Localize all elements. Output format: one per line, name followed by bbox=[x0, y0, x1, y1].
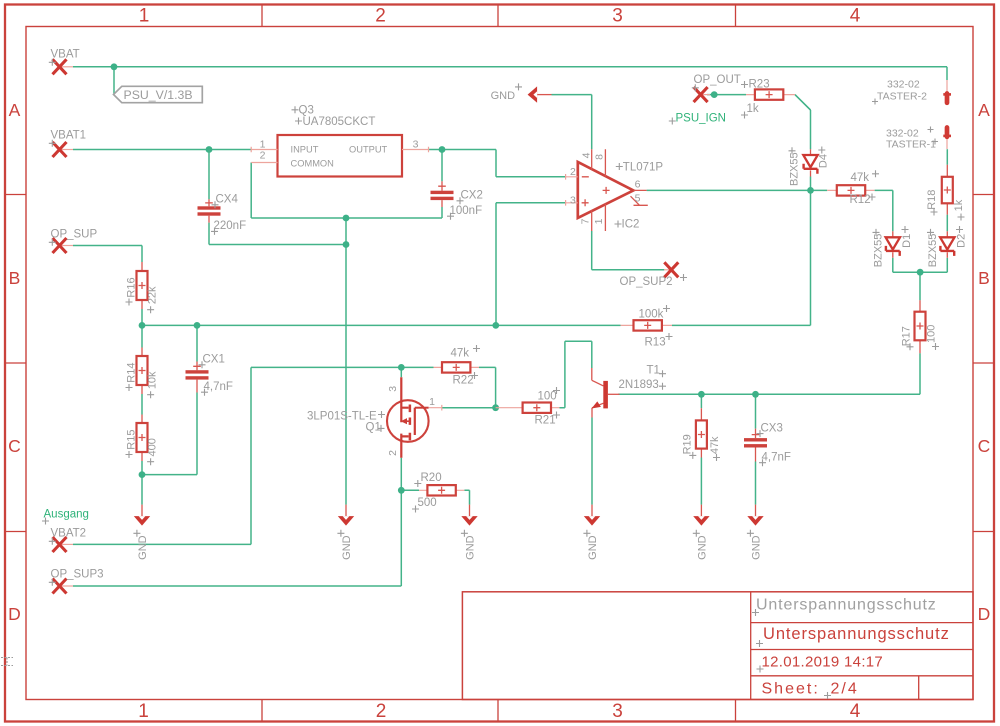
resistor R15 400 bbox=[126, 415, 159, 466]
svg-text:Unterspannungsschutz: Unterspannungsschutz bbox=[756, 597, 937, 614]
wire VBAT2 run bbox=[73, 367, 401, 544]
svg-text:Q3: Q3 bbox=[299, 105, 314, 117]
op-amp IC2 TL071P bbox=[566, 149, 664, 231]
node OP_OUT x-flag bbox=[692, 74, 741, 102]
svg-text:GND: GND bbox=[341, 535, 353, 560]
svg-text:12.01.2019 14:17: 12.01.2019 14:17 bbox=[762, 654, 884, 671]
svg-text:1: 1 bbox=[139, 6, 150, 27]
svg-text:3: 3 bbox=[570, 194, 576, 206]
wire R23 to D4 diagonal bbox=[795, 95, 811, 110]
svg-text:4: 4 bbox=[580, 152, 592, 158]
svg-text:UA7805CKCT: UA7805CKCT bbox=[303, 116, 376, 128]
svg-text:47k: 47k bbox=[851, 172, 870, 184]
svg-text:R23: R23 bbox=[749, 78, 770, 90]
resistor R13 100k bbox=[621, 305, 673, 349]
svg-text:Q1: Q1 bbox=[366, 422, 381, 434]
capacitor CX1 4,7nF bbox=[186, 354, 233, 396]
junction common A bbox=[343, 215, 350, 222]
svg-text:4: 4 bbox=[850, 701, 861, 722]
resistor R17 100 bbox=[901, 300, 940, 353]
wire VBAT to switch chain bbox=[946, 67, 948, 80]
svg-text:R16: R16 bbox=[126, 277, 138, 297]
resistor R16 22k bbox=[126, 262, 159, 313]
svg-text:R14: R14 bbox=[126, 363, 138, 383]
svg-text:1: 1 bbox=[138, 701, 149, 722]
svg-text:VBAT2: VBAT2 bbox=[51, 528, 87, 540]
svg-text:8: 8 bbox=[594, 154, 606, 160]
wire D4 column vertical upper bbox=[795, 95, 811, 150]
node OP_SUP2 x-flag bbox=[620, 262, 688, 288]
frame column dividers top bbox=[262, 5, 736, 27]
svg-text:GND: GND bbox=[696, 535, 708, 560]
node OP_SUP3 x-flag bbox=[49, 569, 104, 594]
svg-text:220nF: 220nF bbox=[214, 220, 247, 232]
wire R18 top bbox=[946, 149, 948, 165]
frame row dividers left bbox=[5, 195, 26, 532]
junction base CX3 bbox=[752, 391, 759, 398]
wire CX2 top bbox=[441, 150, 443, 182]
wire CX3 bottom bbox=[755, 462, 757, 505]
junction base R19 bbox=[698, 391, 705, 398]
svg-text:TASTER-1: TASTER-1 bbox=[886, 139, 936, 151]
svg-text:C: C bbox=[8, 436, 21, 456]
svg-text:CX4: CX4 bbox=[216, 194, 239, 206]
svg-text:2: 2 bbox=[260, 149, 266, 161]
svg-text:6: 6 bbox=[635, 179, 641, 191]
svg-text:400: 400 bbox=[146, 438, 158, 456]
junction VBAT1 CX4 bbox=[206, 146, 213, 153]
zener diode D4 BZX55 bbox=[789, 147, 830, 187]
svg-text:CX1: CX1 bbox=[203, 354, 225, 366]
wire divider bottom to gnd bbox=[141, 475, 143, 505]
frame row dividers right bbox=[973, 195, 994, 532]
resistor R12 47k bbox=[827, 170, 879, 206]
wire opamp output bbox=[647, 189, 828, 191]
wire OP_SUP3 run bbox=[73, 490, 401, 586]
svg-text:332-02: 332-02 bbox=[887, 79, 920, 91]
wire Q1 gate node bbox=[400, 367, 402, 377]
junction VBAT flag bbox=[111, 63, 118, 70]
svg-text:R13: R13 bbox=[645, 337, 666, 349]
wire D4 column vertical lower bbox=[810, 177, 812, 326]
svg-text:R20: R20 bbox=[421, 472, 442, 484]
wire VBAT1 to 7805 bbox=[73, 149, 251, 151]
svg-text:R15: R15 bbox=[126, 430, 138, 450]
svg-text:IC2: IC2 bbox=[622, 219, 640, 231]
wire gate node to R22 bbox=[401, 366, 433, 368]
transistor Q1 3LP01S-TL-E (P-MOSFET) bbox=[307, 377, 442, 458]
svg-text:D2: D2 bbox=[956, 234, 968, 248]
svg-text:2: 2 bbox=[387, 450, 399, 456]
svg-text:GND: GND bbox=[751, 535, 763, 560]
svg-text:2N1893: 2N1893 bbox=[619, 379, 659, 391]
resistor R14 10k bbox=[126, 348, 159, 399]
junction OP_OUT bbox=[711, 91, 718, 98]
wire R22 right down bbox=[479, 367, 496, 407]
zener diode D1 BZX55 bbox=[872, 226, 913, 267]
svg-text:C: C bbox=[978, 436, 991, 456]
svg-text:TASTER-2: TASTER-2 bbox=[877, 91, 927, 103]
capacitor CX3 4,7nF bbox=[744, 422, 791, 466]
svg-text:1: 1 bbox=[429, 396, 435, 408]
junction 7805 out bbox=[439, 146, 446, 153]
wire COMMON horizontal bbox=[251, 217, 442, 219]
wire T1 emitter to gnd bbox=[591, 418, 593, 505]
svg-text:CX3: CX3 bbox=[761, 422, 783, 434]
junction Q1 pin1 bbox=[492, 404, 499, 411]
svg-text:OP_OUT: OP_OUT bbox=[694, 74, 741, 86]
wire R19 top bbox=[700, 394, 702, 408]
svg-text:R17: R17 bbox=[901, 326, 913, 346]
wire CX4 bottom bbox=[209, 223, 346, 245]
svg-text:47k: 47k bbox=[451, 347, 470, 359]
junction Q1 pin2 R20 bbox=[398, 487, 405, 494]
frame column dividers bottom bbox=[262, 700, 736, 722]
wire R17 bottom leg bbox=[919, 353, 921, 394]
wire R13 right to D4 column bbox=[672, 324, 811, 326]
svg-text:2/4: 2/4 bbox=[831, 681, 859, 698]
svg-text:2: 2 bbox=[570, 166, 576, 178]
svg-text:D: D bbox=[8, 604, 21, 624]
svg-text:OP_SUP2: OP_SUP2 bbox=[620, 276, 673, 288]
svg-text:VBAT: VBAT bbox=[51, 49, 80, 61]
svg-text:10k: 10k bbox=[146, 371, 158, 389]
wire CX1 top bbox=[196, 325, 198, 361]
title block vertical divider bbox=[750, 592, 752, 700]
junction CX1 top bbox=[194, 322, 201, 329]
svg-text:2: 2 bbox=[376, 701, 387, 722]
ground symbol below CX3 bbox=[747, 505, 764, 560]
svg-text:PSU_V/1.3B: PSU_V/1.3B bbox=[124, 88, 193, 102]
wire 7805 output node bbox=[429, 150, 566, 177]
resistor R18 1k bbox=[926, 165, 965, 221]
title block outline bbox=[462, 592, 973, 700]
wire D1 column bbox=[892, 190, 894, 272]
ground symbol below T1 emitter bbox=[583, 505, 600, 560]
svg-text:PSU_IGN: PSU_IGN bbox=[676, 113, 727, 125]
wire R21 to T1 collector bbox=[560, 341, 592, 408]
svg-text:5: 5 bbox=[635, 192, 641, 204]
wire T1 base line bbox=[618, 393, 920, 395]
node OP_SUP x-flag bbox=[49, 229, 98, 254]
svg-text:TL071P: TL071P bbox=[623, 161, 664, 173]
title block row lines bbox=[751, 623, 973, 700]
svg-text:3: 3 bbox=[612, 701, 623, 722]
wire Q1 pin1 to R21 node bbox=[442, 407, 496, 409]
junction Q1 gate bbox=[398, 364, 405, 371]
flag PSU_V/1.3B bbox=[114, 86, 203, 102]
svg-text:47k: 47k bbox=[709, 436, 721, 454]
wire R20 left bbox=[401, 489, 419, 491]
svg-text:A: A bbox=[978, 100, 990, 120]
svg-text:OP_SUP: OP_SUP bbox=[51, 229, 98, 241]
title origin marks bbox=[752, 609, 831, 699]
ground symbol below R19 bbox=[693, 505, 710, 560]
svg-text:R22: R22 bbox=[453, 375, 474, 387]
wire R17 top to zener node bbox=[919, 272, 921, 300]
svg-text:Unterspannungsschutz: Unterspannungsschutz bbox=[763, 625, 950, 643]
junction R15 CX1 bbox=[139, 471, 146, 478]
junction D1 D2 R17 bbox=[917, 269, 924, 276]
svg-text:INPUT: INPUT bbox=[291, 144, 319, 154]
resistor R19 47k bbox=[681, 408, 721, 461]
svg-text:4,7nF: 4,7nF bbox=[204, 381, 233, 393]
ground symbol below R15/CX1 bbox=[133, 505, 150, 560]
resistor R22 47k bbox=[434, 345, 481, 387]
svg-text:B: B bbox=[978, 268, 990, 288]
capacitor CX4 220nF bbox=[198, 150, 247, 235]
svg-text:A: A bbox=[9, 100, 21, 120]
node VBAT2 x-flag bbox=[49, 528, 86, 553]
svg-text:GND: GND bbox=[587, 535, 599, 560]
wire D2 column bbox=[946, 215, 948, 273]
svg-text:2: 2 bbox=[375, 6, 386, 27]
svg-text:500: 500 bbox=[418, 497, 437, 509]
wire COMMON down bbox=[250, 163, 252, 219]
junction common B bbox=[343, 241, 350, 248]
svg-text:GND: GND bbox=[465, 535, 477, 560]
zener diode D2 BZX55 bbox=[927, 226, 968, 267]
transistor T1 2N1893 (NPN) bbox=[592, 365, 667, 418]
svg-text:100nF: 100nF bbox=[450, 205, 483, 217]
wire zener bottom bus bbox=[893, 271, 948, 273]
svg-text:T1: T1 bbox=[647, 365, 660, 377]
svg-text:R19: R19 bbox=[681, 434, 693, 454]
switch S2 TASTER-2 332-02 bbox=[872, 79, 951, 105]
wire R12 right bbox=[875, 189, 893, 191]
svg-text:D: D bbox=[978, 604, 991, 624]
wire VBAT top horizontal bbox=[73, 66, 947, 68]
svg-text:3: 3 bbox=[413, 139, 419, 151]
wire OP_SUP to R16 bbox=[73, 246, 142, 263]
svg-text:OP_SUP3: OP_SUP3 bbox=[51, 569, 104, 581]
wire R16 to divider node bbox=[141, 309, 143, 325]
svg-text:1: 1 bbox=[593, 218, 605, 224]
svg-text:R12: R12 bbox=[850, 194, 871, 206]
wire VBAT flag drop bbox=[113, 67, 115, 94]
junction divider R16 bbox=[139, 322, 146, 329]
junction opamp pin3 bbox=[492, 322, 499, 329]
ground symbol GND (opamp, left-pointing) bbox=[491, 83, 552, 102]
svg-text:B: B bbox=[9, 268, 21, 288]
wire OP_OUT to R23 bbox=[707, 94, 746, 96]
svg-text:100: 100 bbox=[926, 325, 938, 343]
wire opamp pin3 vertical bbox=[496, 203, 566, 326]
svg-text:4,7nF: 4,7nF bbox=[762, 451, 791, 463]
ground symbol below CX4 net bbox=[337, 505, 354, 560]
wire gnd vertical link bbox=[345, 218, 347, 245]
resistor R20 500 bbox=[412, 472, 464, 513]
svg-text:BZX55: BZX55 bbox=[872, 234, 884, 268]
wire CX3 top bbox=[755, 394, 757, 428]
wire R14 links bbox=[141, 325, 143, 414]
wire R15 bottom bbox=[141, 461, 143, 475]
node VBAT1 x-flag bbox=[49, 130, 86, 158]
svg-text:COMMON: COMMON bbox=[291, 158, 334, 168]
resistor R21 100 bbox=[496, 387, 560, 427]
svg-text:GND: GND bbox=[491, 90, 515, 102]
svg-text:3: 3 bbox=[612, 6, 623, 27]
svg-text:VBAT1: VBAT1 bbox=[51, 130, 87, 142]
svg-text:D4: D4 bbox=[818, 154, 830, 168]
wire R19 bottom bbox=[700, 458, 702, 505]
svg-text:R21: R21 bbox=[535, 415, 556, 427]
wire opamp pin7 to OP_SUP2 bbox=[592, 231, 665, 270]
svg-text:BZX55: BZX55 bbox=[927, 234, 939, 268]
resistor R23 1k bbox=[741, 78, 795, 118]
svg-text:100k: 100k bbox=[639, 309, 664, 321]
junction D4 output bbox=[807, 187, 814, 194]
node VBAT x-flag bbox=[49, 49, 80, 75]
svg-text:100: 100 bbox=[538, 391, 557, 403]
border docu mark bbox=[1, 658, 13, 666]
svg-text:GND: GND bbox=[137, 535, 149, 560]
svg-text:D1: D1 bbox=[901, 234, 913, 248]
svg-text:R18: R18 bbox=[926, 190, 938, 210]
svg-text:1k: 1k bbox=[953, 199, 965, 211]
wire divider horizontal to R13 bbox=[142, 324, 621, 326]
wire CX2 bottom bbox=[441, 207, 443, 218]
wire Q1 pin2 down bbox=[400, 458, 402, 491]
ground symbol below R20 bbox=[461, 505, 478, 560]
svg-text:Sheet:: Sheet: bbox=[762, 681, 820, 698]
svg-text:CX2: CX2 bbox=[461, 190, 483, 202]
svg-text:22k: 22k bbox=[146, 286, 158, 304]
svg-text:3: 3 bbox=[387, 386, 399, 392]
switch S1 TASTER-1 332-02 bbox=[886, 127, 951, 151]
wire gnd long vertical bbox=[345, 245, 347, 505]
wire CX1 bottom bbox=[142, 393, 197, 475]
svg-text:Ausgang: Ausgang bbox=[44, 509, 89, 521]
capacitor CX2 100nF bbox=[431, 181, 483, 219]
wire gnd symbol to opamp top bbox=[552, 95, 592, 150]
svg-text:4: 4 bbox=[850, 6, 861, 27]
svg-text:OUTPUT: OUTPUT bbox=[349, 144, 388, 154]
svg-text:7: 7 bbox=[580, 218, 592, 224]
wire R20 right to gnd bbox=[464, 490, 469, 504]
voltage regulator Q3 UA7805CKCT bbox=[251, 105, 428, 177]
svg-text:1k: 1k bbox=[747, 103, 759, 115]
svg-text:BZX55: BZX55 bbox=[789, 152, 801, 186]
